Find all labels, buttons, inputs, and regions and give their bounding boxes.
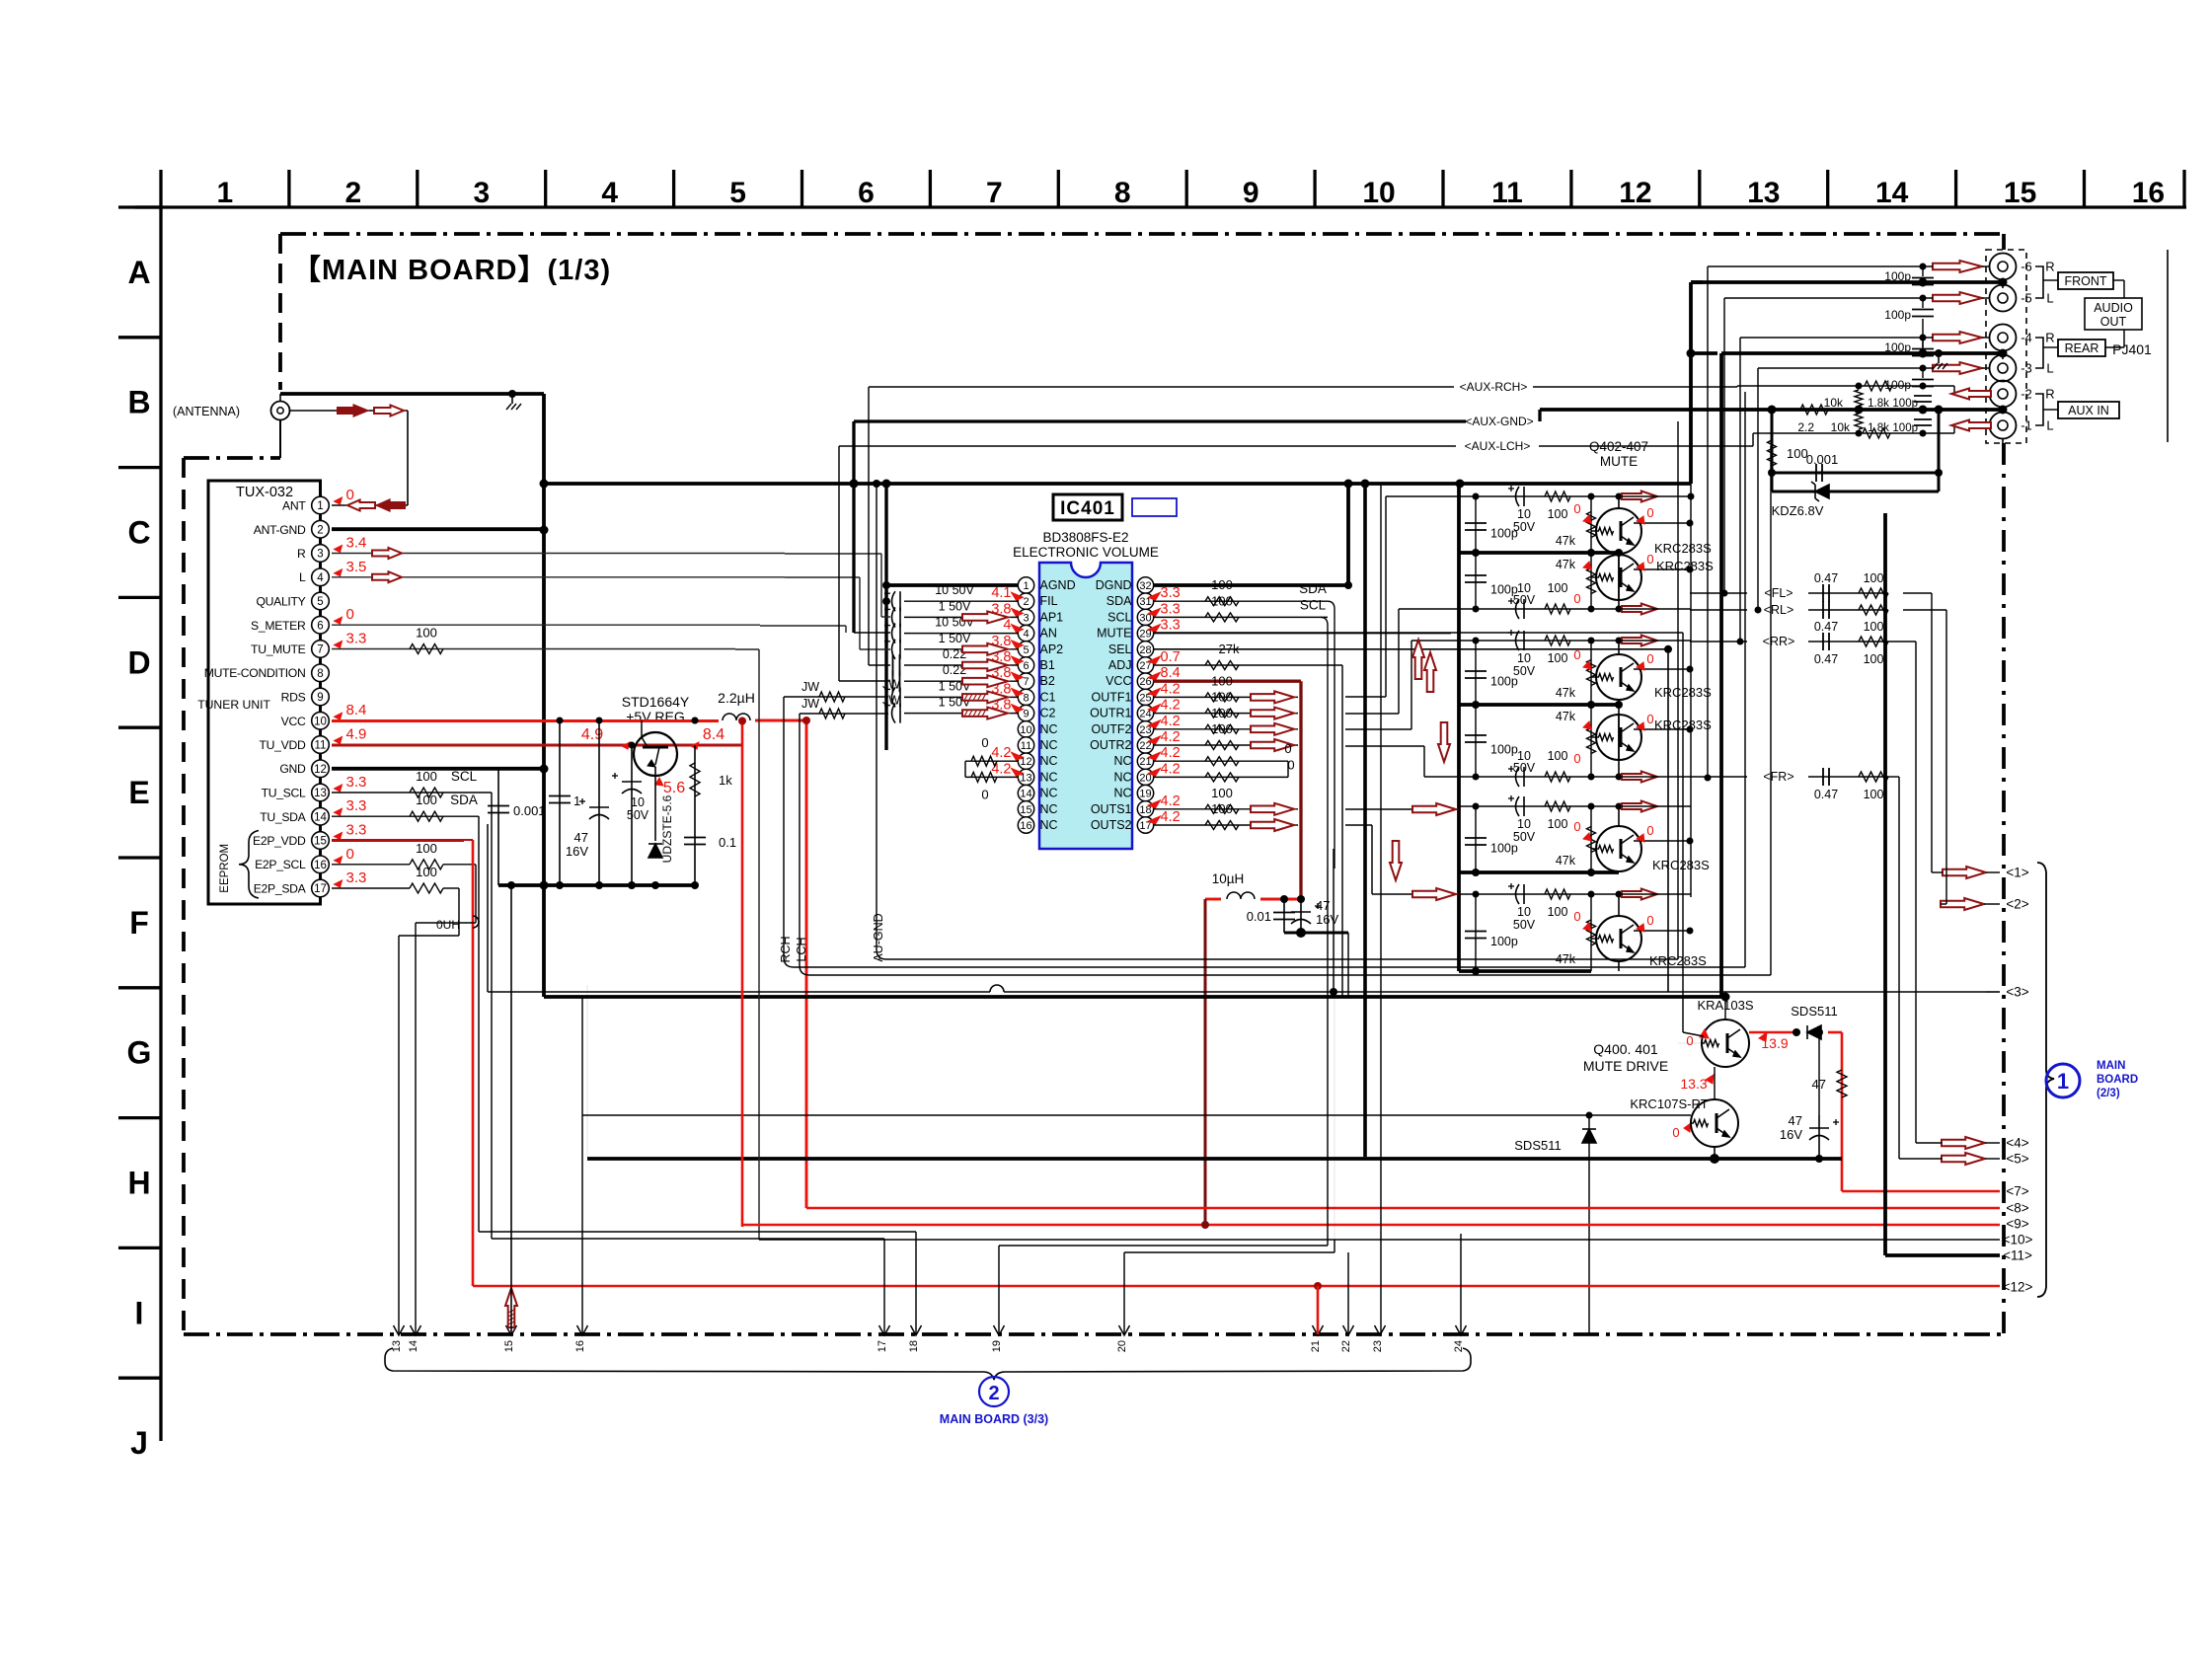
svg-text:0: 0 — [346, 487, 354, 503]
svg-text:8: 8 — [1023, 692, 1029, 704]
svg-text:100: 100 — [1864, 788, 1884, 801]
svg-text:4: 4 — [317, 572, 324, 584]
svg-text:10: 10 — [1517, 651, 1531, 665]
svg-text:OUTR2: OUTR2 — [1090, 738, 1131, 752]
svg-text:8.4: 8.4 — [703, 726, 725, 743]
svg-text:14: 14 — [1020, 789, 1031, 800]
svg-text:10: 10 — [1517, 507, 1531, 521]
svg-text:UDZSTE-5.6: UDZSTE-5.6 — [660, 794, 674, 863]
svg-text:ADJ: ADJ — [1108, 658, 1132, 672]
svg-text:0.001: 0.001 — [1806, 452, 1839, 467]
svg-text:15: 15 — [1020, 804, 1031, 816]
svg-text:100p: 100p — [1490, 935, 1518, 948]
svg-text:1 50V: 1 50V — [939, 599, 971, 613]
svg-text:NC: NC — [1040, 770, 1058, 784]
svg-text:OUT: OUT — [2100, 315, 2127, 329]
svg-text:4.2: 4.2 — [1161, 745, 1181, 761]
svg-text:8: 8 — [1114, 177, 1131, 209]
svg-text:10k: 10k — [1824, 396, 1844, 410]
svg-text:KRC283S: KRC283S — [1652, 858, 1710, 872]
svg-text:NC: NC — [1113, 787, 1131, 800]
svg-text:100: 100 — [1548, 651, 1568, 665]
svg-text:50V: 50V — [627, 808, 649, 822]
svg-text:10: 10 — [1020, 724, 1031, 736]
svg-text:LCH: LCH — [795, 937, 808, 961]
svg-text:SDA: SDA — [1299, 581, 1327, 596]
svg-text:5: 5 — [1023, 644, 1029, 656]
svg-text:H: H — [127, 1166, 150, 1201]
svg-text:SDS511: SDS511 — [1514, 1138, 1561, 1153]
svg-text:100: 100 — [416, 793, 437, 807]
svg-text:4.2: 4.2 — [1161, 729, 1181, 745]
svg-text:0: 0 — [346, 606, 354, 623]
svg-text:10: 10 — [1362, 177, 1395, 209]
svg-text:3.3: 3.3 — [1161, 585, 1181, 601]
svg-text:2.2: 2.2 — [1797, 420, 1814, 434]
svg-text:C1: C1 — [1040, 690, 1056, 704]
svg-text:3: 3 — [317, 549, 323, 561]
svg-text:15: 15 — [503, 1340, 515, 1352]
svg-text:Q400. 401: Q400. 401 — [1593, 1041, 1658, 1057]
svg-text:4.1: 4.1 — [991, 585, 1011, 601]
svg-text:0: 0 — [981, 788, 988, 802]
svg-text:AUX IN: AUX IN — [2068, 404, 2109, 417]
svg-text:16: 16 — [1020, 820, 1031, 832]
svg-text:<AUX-LCH>: <AUX-LCH> — [1465, 439, 1531, 453]
svg-text:<1>: <1> — [2006, 866, 2028, 880]
svg-text:7: 7 — [986, 177, 1003, 209]
svg-text:1: 1 — [217, 177, 234, 209]
svg-text:4: 4 — [1003, 618, 1011, 634]
svg-text:VCC: VCC — [281, 715, 306, 728]
svg-text:MAIN: MAIN — [2097, 1060, 2125, 1072]
svg-text:NC: NC — [1040, 818, 1058, 832]
svg-text:15: 15 — [2004, 177, 2036, 209]
svg-text:50V: 50V — [1513, 918, 1536, 932]
svg-text:9: 9 — [1243, 177, 1259, 209]
svg-text:0.47: 0.47 — [1814, 620, 1838, 634]
svg-text:EEPROM: EEPROM — [219, 844, 231, 893]
svg-text:6: 6 — [317, 620, 323, 632]
svg-text:NC: NC — [1040, 787, 1058, 800]
svg-text:AP2: AP2 — [1040, 643, 1064, 656]
svg-text:2: 2 — [1023, 596, 1029, 608]
svg-text:0: 0 — [1573, 819, 1580, 834]
svg-text:B1: B1 — [1040, 658, 1055, 672]
svg-text:100: 100 — [1211, 673, 1233, 688]
svg-text:<RR>: <RR> — [1763, 635, 1795, 648]
svg-text:L: L — [2046, 361, 2053, 376]
svg-text:0: 0 — [1646, 712, 1653, 726]
svg-text:<12>: <12> — [2003, 1280, 2033, 1295]
svg-text:100: 100 — [416, 626, 437, 641]
svg-text:MUTE: MUTE — [1600, 454, 1638, 469]
svg-text:NC: NC — [1113, 754, 1131, 768]
svg-text:-6: -6 — [2021, 260, 2032, 274]
svg-text:MAIN BOARD (3/3): MAIN BOARD (3/3) — [940, 1412, 1048, 1426]
svg-text:17: 17 — [314, 883, 327, 895]
svg-text:0: 0 — [1573, 591, 1580, 606]
svg-text:8.4: 8.4 — [346, 702, 367, 718]
svg-text:E2P_VDD: E2P_VDD — [253, 834, 306, 848]
svg-text:【MAIN BOARD】(1/3): 【MAIN BOARD】(1/3) — [292, 254, 611, 286]
svg-text:0.47: 0.47 — [1814, 788, 1838, 801]
svg-text:J: J — [130, 1425, 148, 1461]
svg-text:BD3808FS-E2: BD3808FS-E2 — [1042, 530, 1128, 545]
svg-text:SCL: SCL — [1107, 610, 1131, 624]
svg-text:0: 0 — [1573, 501, 1580, 516]
svg-text:3.3: 3.3 — [346, 822, 367, 839]
svg-text:9: 9 — [317, 692, 323, 704]
svg-text:AUDIO: AUDIO — [2094, 301, 2133, 315]
svg-text:2.2µH: 2.2µH — [718, 690, 755, 706]
svg-text:OUTF1: OUTF1 — [1092, 690, 1132, 704]
svg-text:FRONT: FRONT — [2064, 274, 2106, 288]
svg-text:B: B — [127, 385, 150, 420]
svg-text:4.2: 4.2 — [991, 745, 1011, 761]
svg-text:14: 14 — [1875, 177, 1909, 209]
svg-text:0.47: 0.47 — [1814, 652, 1838, 666]
svg-text:GND: GND — [279, 762, 306, 776]
svg-text:3.3: 3.3 — [346, 797, 367, 814]
svg-text:4.9: 4.9 — [581, 726, 603, 743]
svg-text:L: L — [299, 570, 306, 584]
svg-text:8.4: 8.4 — [1161, 665, 1181, 681]
svg-text:MUTE-CONDITION: MUTE-CONDITION — [204, 666, 306, 680]
svg-text:0: 0 — [1646, 505, 1653, 520]
svg-text:11: 11 — [1021, 740, 1031, 752]
svg-text:<8>: <8> — [2006, 1201, 2028, 1216]
svg-text:SDA: SDA — [1106, 594, 1132, 608]
svg-text:19: 19 — [991, 1340, 1003, 1352]
svg-text:<5>: <5> — [2006, 1152, 2028, 1167]
svg-text:0: 0 — [1573, 751, 1580, 766]
svg-text:8: 8 — [317, 668, 323, 680]
svg-text:15: 15 — [314, 836, 327, 848]
svg-text:<7>: <7> — [2006, 1184, 2028, 1199]
svg-text:16: 16 — [314, 860, 327, 871]
svg-text:0: 0 — [346, 846, 354, 863]
svg-text:9: 9 — [1023, 709, 1029, 720]
svg-text:NC: NC — [1040, 802, 1058, 816]
svg-text:100: 100 — [1211, 690, 1233, 705]
svg-text:G: G — [127, 1035, 152, 1071]
svg-text:AN: AN — [1040, 627, 1057, 641]
svg-text:0: 0 — [1646, 552, 1653, 567]
svg-text:<10>: <10> — [2003, 1233, 2033, 1247]
svg-text:3.4: 3.4 — [346, 535, 367, 552]
svg-text:100p: 100p — [1490, 583, 1518, 597]
svg-text:12: 12 — [314, 764, 327, 776]
svg-text:A: A — [127, 255, 150, 290]
svg-text:SEL: SEL — [1108, 643, 1132, 656]
svg-text:1k: 1k — [719, 773, 732, 788]
svg-text:PJ401: PJ401 — [2112, 341, 2152, 357]
svg-text:32: 32 — [1139, 580, 1151, 592]
svg-text:TU_SCL: TU_SCL — [262, 787, 306, 800]
svg-text:OUTS1: OUTS1 — [1091, 802, 1132, 816]
svg-text:13: 13 — [314, 788, 327, 799]
svg-text:4.2: 4.2 — [1161, 809, 1181, 825]
svg-text:ELECTRONIC VOLUME: ELECTRONIC VOLUME — [1013, 545, 1159, 560]
svg-text:L: L — [2046, 291, 2053, 306]
svg-text:100: 100 — [1548, 507, 1568, 521]
svg-text:SDA: SDA — [450, 793, 478, 807]
svg-text:<2>: <2> — [2006, 897, 2028, 912]
svg-text:13: 13 — [1747, 177, 1780, 209]
svg-text:22: 22 — [1340, 1340, 1352, 1352]
svg-text:TU_VDD: TU_VDD — [260, 738, 306, 752]
svg-text:100p: 100p — [1490, 842, 1518, 856]
svg-text:100: 100 — [1211, 577, 1233, 592]
svg-text:OUTR1: OUTR1 — [1090, 707, 1131, 720]
svg-text:11: 11 — [315, 740, 327, 752]
svg-text:19: 19 — [1139, 789, 1151, 800]
svg-text:100p: 100p — [1884, 378, 1911, 392]
svg-text:1: 1 — [1023, 580, 1029, 592]
svg-text:10: 10 — [314, 716, 327, 727]
svg-text:4.2: 4.2 — [1161, 761, 1181, 777]
svg-text:0: 0 — [1646, 651, 1653, 666]
svg-text:47k: 47k — [1556, 558, 1576, 571]
svg-text:100: 100 — [416, 841, 437, 856]
svg-text:6: 6 — [858, 177, 875, 209]
svg-text:18: 18 — [908, 1340, 920, 1352]
svg-text:AU-GND: AU-GND — [872, 913, 885, 961]
svg-text:0UH: 0UH — [436, 918, 460, 932]
svg-text:10: 10 — [631, 795, 645, 809]
svg-text:3: 3 — [473, 177, 490, 209]
svg-text:47k: 47k — [1556, 686, 1576, 700]
svg-text:<AUX-GND>: <AUX-GND> — [1465, 415, 1533, 428]
svg-text:AP1: AP1 — [1040, 610, 1064, 624]
svg-text:<FL>: <FL> — [1764, 586, 1792, 600]
svg-text:1: 1 — [317, 500, 323, 512]
svg-text:-4: -4 — [2021, 331, 2032, 345]
svg-text:SCL: SCL — [1300, 597, 1327, 612]
svg-text:11: 11 — [1491, 177, 1523, 209]
svg-text:10k: 10k — [1831, 420, 1851, 434]
svg-text:-3: -3 — [2021, 361, 2032, 376]
svg-text:BOARD: BOARD — [2097, 1074, 2138, 1086]
svg-text:5: 5 — [317, 596, 323, 608]
svg-text:3.3: 3.3 — [1161, 618, 1181, 634]
svg-text:D: D — [127, 644, 150, 680]
svg-text:<4>: <4> — [2006, 1136, 2028, 1151]
svg-text:20: 20 — [1116, 1340, 1128, 1352]
svg-text:0: 0 — [1646, 913, 1653, 928]
svg-text:4.9: 4.9 — [346, 726, 367, 743]
svg-text:7: 7 — [317, 644, 323, 656]
svg-text:4.2: 4.2 — [1161, 681, 1181, 697]
svg-text:100p: 100p — [1892, 422, 1918, 434]
svg-text:TU_SDA: TU_SDA — [260, 810, 306, 824]
svg-text:0.7: 0.7 — [1161, 649, 1181, 665]
svg-text:47: 47 — [574, 830, 588, 845]
svg-text:3: 3 — [1023, 612, 1029, 624]
svg-text:100: 100 — [1864, 620, 1884, 634]
svg-text:1: 1 — [2057, 1069, 2069, 1094]
svg-text:3.3: 3.3 — [1161, 601, 1181, 617]
svg-text:47: 47 — [1789, 1113, 1802, 1128]
svg-text:4.2: 4.2 — [1161, 794, 1181, 809]
svg-text:JW: JW — [801, 697, 819, 711]
svg-text:<FR>: <FR> — [1763, 770, 1793, 784]
svg-text:47k: 47k — [1556, 710, 1576, 723]
svg-text:13: 13 — [391, 1340, 403, 1352]
svg-text:4.2: 4.2 — [1161, 698, 1181, 714]
svg-text:ANT: ANT — [282, 499, 306, 513]
svg-text:5.6: 5.6 — [663, 780, 685, 796]
svg-text:13.3: 13.3 — [1680, 1076, 1707, 1092]
svg-text:0: 0 — [1573, 647, 1580, 662]
svg-text:FIL: FIL — [1040, 594, 1058, 608]
svg-text:RDS: RDS — [281, 691, 306, 705]
svg-text:16: 16 — [2132, 177, 2165, 209]
svg-text:NC: NC — [1040, 738, 1058, 752]
svg-text:JW: JW — [882, 694, 900, 708]
svg-text:1 50V: 1 50V — [939, 632, 971, 645]
svg-text:6: 6 — [1023, 660, 1029, 672]
svg-text:JW: JW — [801, 680, 819, 694]
svg-text:3.3: 3.3 — [346, 869, 367, 886]
svg-text:16: 16 — [574, 1340, 586, 1352]
svg-text:ANT-GND: ANT-GND — [254, 523, 306, 537]
svg-text:-1: -1 — [2021, 418, 2032, 433]
svg-text:0: 0 — [981, 735, 988, 750]
svg-text:0: 0 — [1672, 1125, 1679, 1140]
svg-text:<11>: <11> — [2003, 1248, 2032, 1263]
svg-text:100: 100 — [1211, 721, 1233, 736]
svg-text:TU_MUTE: TU_MUTE — [251, 643, 306, 656]
svg-text:(2/3): (2/3) — [2097, 1088, 2120, 1099]
svg-text:100p: 100p — [1490, 743, 1518, 757]
svg-text:100: 100 — [1211, 801, 1233, 816]
svg-text:4: 4 — [601, 177, 618, 209]
svg-text:16V: 16V — [1780, 1127, 1802, 1142]
svg-text:23: 23 — [1372, 1340, 1384, 1352]
svg-text:Q402-407: Q402-407 — [1589, 439, 1648, 454]
svg-text:<3>: <3> — [2006, 985, 2028, 1000]
svg-text:QUALITY: QUALITY — [256, 595, 305, 609]
svg-text:NC: NC — [1040, 754, 1058, 768]
svg-text:<AUX-RCH>: <AUX-RCH> — [1460, 380, 1528, 394]
svg-text:-5: -5 — [2021, 291, 2032, 306]
svg-text:10µH: 10µH — [1212, 871, 1245, 886]
svg-text:IC401: IC401 — [1060, 498, 1115, 519]
svg-text:100: 100 — [416, 769, 437, 784]
svg-text:10: 10 — [1517, 905, 1531, 919]
svg-text:NC: NC — [1113, 770, 1131, 784]
svg-text:100: 100 — [416, 865, 437, 879]
svg-text:R: R — [2045, 387, 2054, 402]
svg-text:50V: 50V — [1513, 761, 1536, 775]
svg-text:C: C — [127, 515, 150, 551]
svg-text:TUNER UNIT: TUNER UNIT — [197, 698, 270, 712]
svg-text:14: 14 — [314, 811, 327, 823]
svg-text:100: 100 — [1211, 593, 1233, 608]
svg-text:14: 14 — [408, 1340, 420, 1352]
svg-text:100: 100 — [1548, 581, 1568, 595]
svg-text:I: I — [135, 1295, 144, 1330]
svg-text:100: 100 — [1787, 446, 1808, 461]
svg-text:100: 100 — [1864, 571, 1884, 585]
svg-text:RCH: RCH — [779, 936, 793, 962]
svg-text:R: R — [297, 547, 306, 561]
svg-text:47k: 47k — [1556, 854, 1576, 868]
svg-text:0.001: 0.001 — [513, 803, 546, 818]
svg-text:100: 100 — [1548, 905, 1568, 919]
svg-text:100p: 100p — [1892, 398, 1918, 410]
svg-text:0: 0 — [1686, 1033, 1693, 1048]
svg-text:0.01: 0.01 — [1247, 909, 1271, 924]
svg-text:10: 10 — [1517, 817, 1531, 831]
svg-text:VCC: VCC — [1106, 674, 1131, 688]
svg-text:100: 100 — [1548, 817, 1568, 831]
svg-text:SDS511: SDS511 — [1791, 1004, 1837, 1019]
svg-text:S_METER: S_METER — [251, 619, 306, 633]
svg-text:KRC283S: KRC283S — [1656, 559, 1714, 573]
svg-text:3.3: 3.3 — [346, 774, 367, 791]
svg-text:KRC283S: KRC283S — [1654, 541, 1712, 556]
svg-text:<9>: <9> — [2006, 1217, 2028, 1232]
svg-text:KDZ6.8V: KDZ6.8V — [1772, 503, 1824, 518]
svg-text:0.1: 0.1 — [719, 835, 736, 850]
svg-text:OUTS2: OUTS2 — [1091, 818, 1132, 832]
svg-text:17: 17 — [877, 1340, 888, 1352]
svg-text:3.3: 3.3 — [346, 631, 367, 647]
svg-text:MUTE: MUTE — [1097, 627, 1131, 641]
svg-text:16V: 16V — [566, 844, 588, 859]
svg-text:2: 2 — [317, 524, 323, 536]
svg-text:<RL>: <RL> — [1764, 603, 1794, 617]
svg-text:28: 28 — [1139, 644, 1151, 656]
svg-text:27k: 27k — [1219, 642, 1240, 656]
svg-text:OUTF2: OUTF2 — [1092, 722, 1132, 736]
svg-text:AGND: AGND — [1040, 578, 1076, 592]
svg-text:NC: NC — [1040, 722, 1058, 736]
svg-text:R: R — [2045, 331, 2054, 345]
svg-text:R: R — [2045, 260, 2054, 274]
svg-text:100p: 100p — [1490, 527, 1518, 541]
svg-text:JW: JW — [882, 677, 900, 691]
svg-text:-2: -2 — [2021, 387, 2032, 402]
svg-text:C2: C2 — [1040, 707, 1056, 720]
svg-text:1.8k: 1.8k — [1868, 398, 1889, 410]
svg-text:100: 100 — [1548, 749, 1568, 763]
svg-text:100: 100 — [1211, 786, 1233, 800]
svg-text:E2P_SDA: E2P_SDA — [254, 882, 307, 896]
svg-text:100p: 100p — [1490, 675, 1518, 689]
svg-text:0: 0 — [1573, 909, 1580, 924]
svg-text:0: 0 — [1646, 823, 1653, 838]
svg-text:3.5: 3.5 — [346, 559, 367, 575]
svg-text:10 50V: 10 50V — [935, 583, 974, 597]
svg-text:E: E — [128, 775, 149, 810]
svg-text:0: 0 — [1284, 741, 1291, 756]
svg-text:B2: B2 — [1040, 674, 1055, 688]
svg-text:100p: 100p — [1884, 308, 1911, 322]
svg-text:0.47: 0.47 — [1814, 571, 1838, 585]
svg-text:4: 4 — [1023, 629, 1029, 641]
svg-text:7: 7 — [1023, 676, 1029, 688]
svg-text:21: 21 — [1310, 1340, 1322, 1352]
svg-text:MUTE DRIVE: MUTE DRIVE — [1583, 1058, 1668, 1074]
svg-text:DGND: DGND — [1096, 578, 1132, 592]
svg-text:F: F — [129, 905, 149, 941]
svg-text:2: 2 — [345, 177, 362, 209]
svg-text:L: L — [2046, 418, 2053, 433]
